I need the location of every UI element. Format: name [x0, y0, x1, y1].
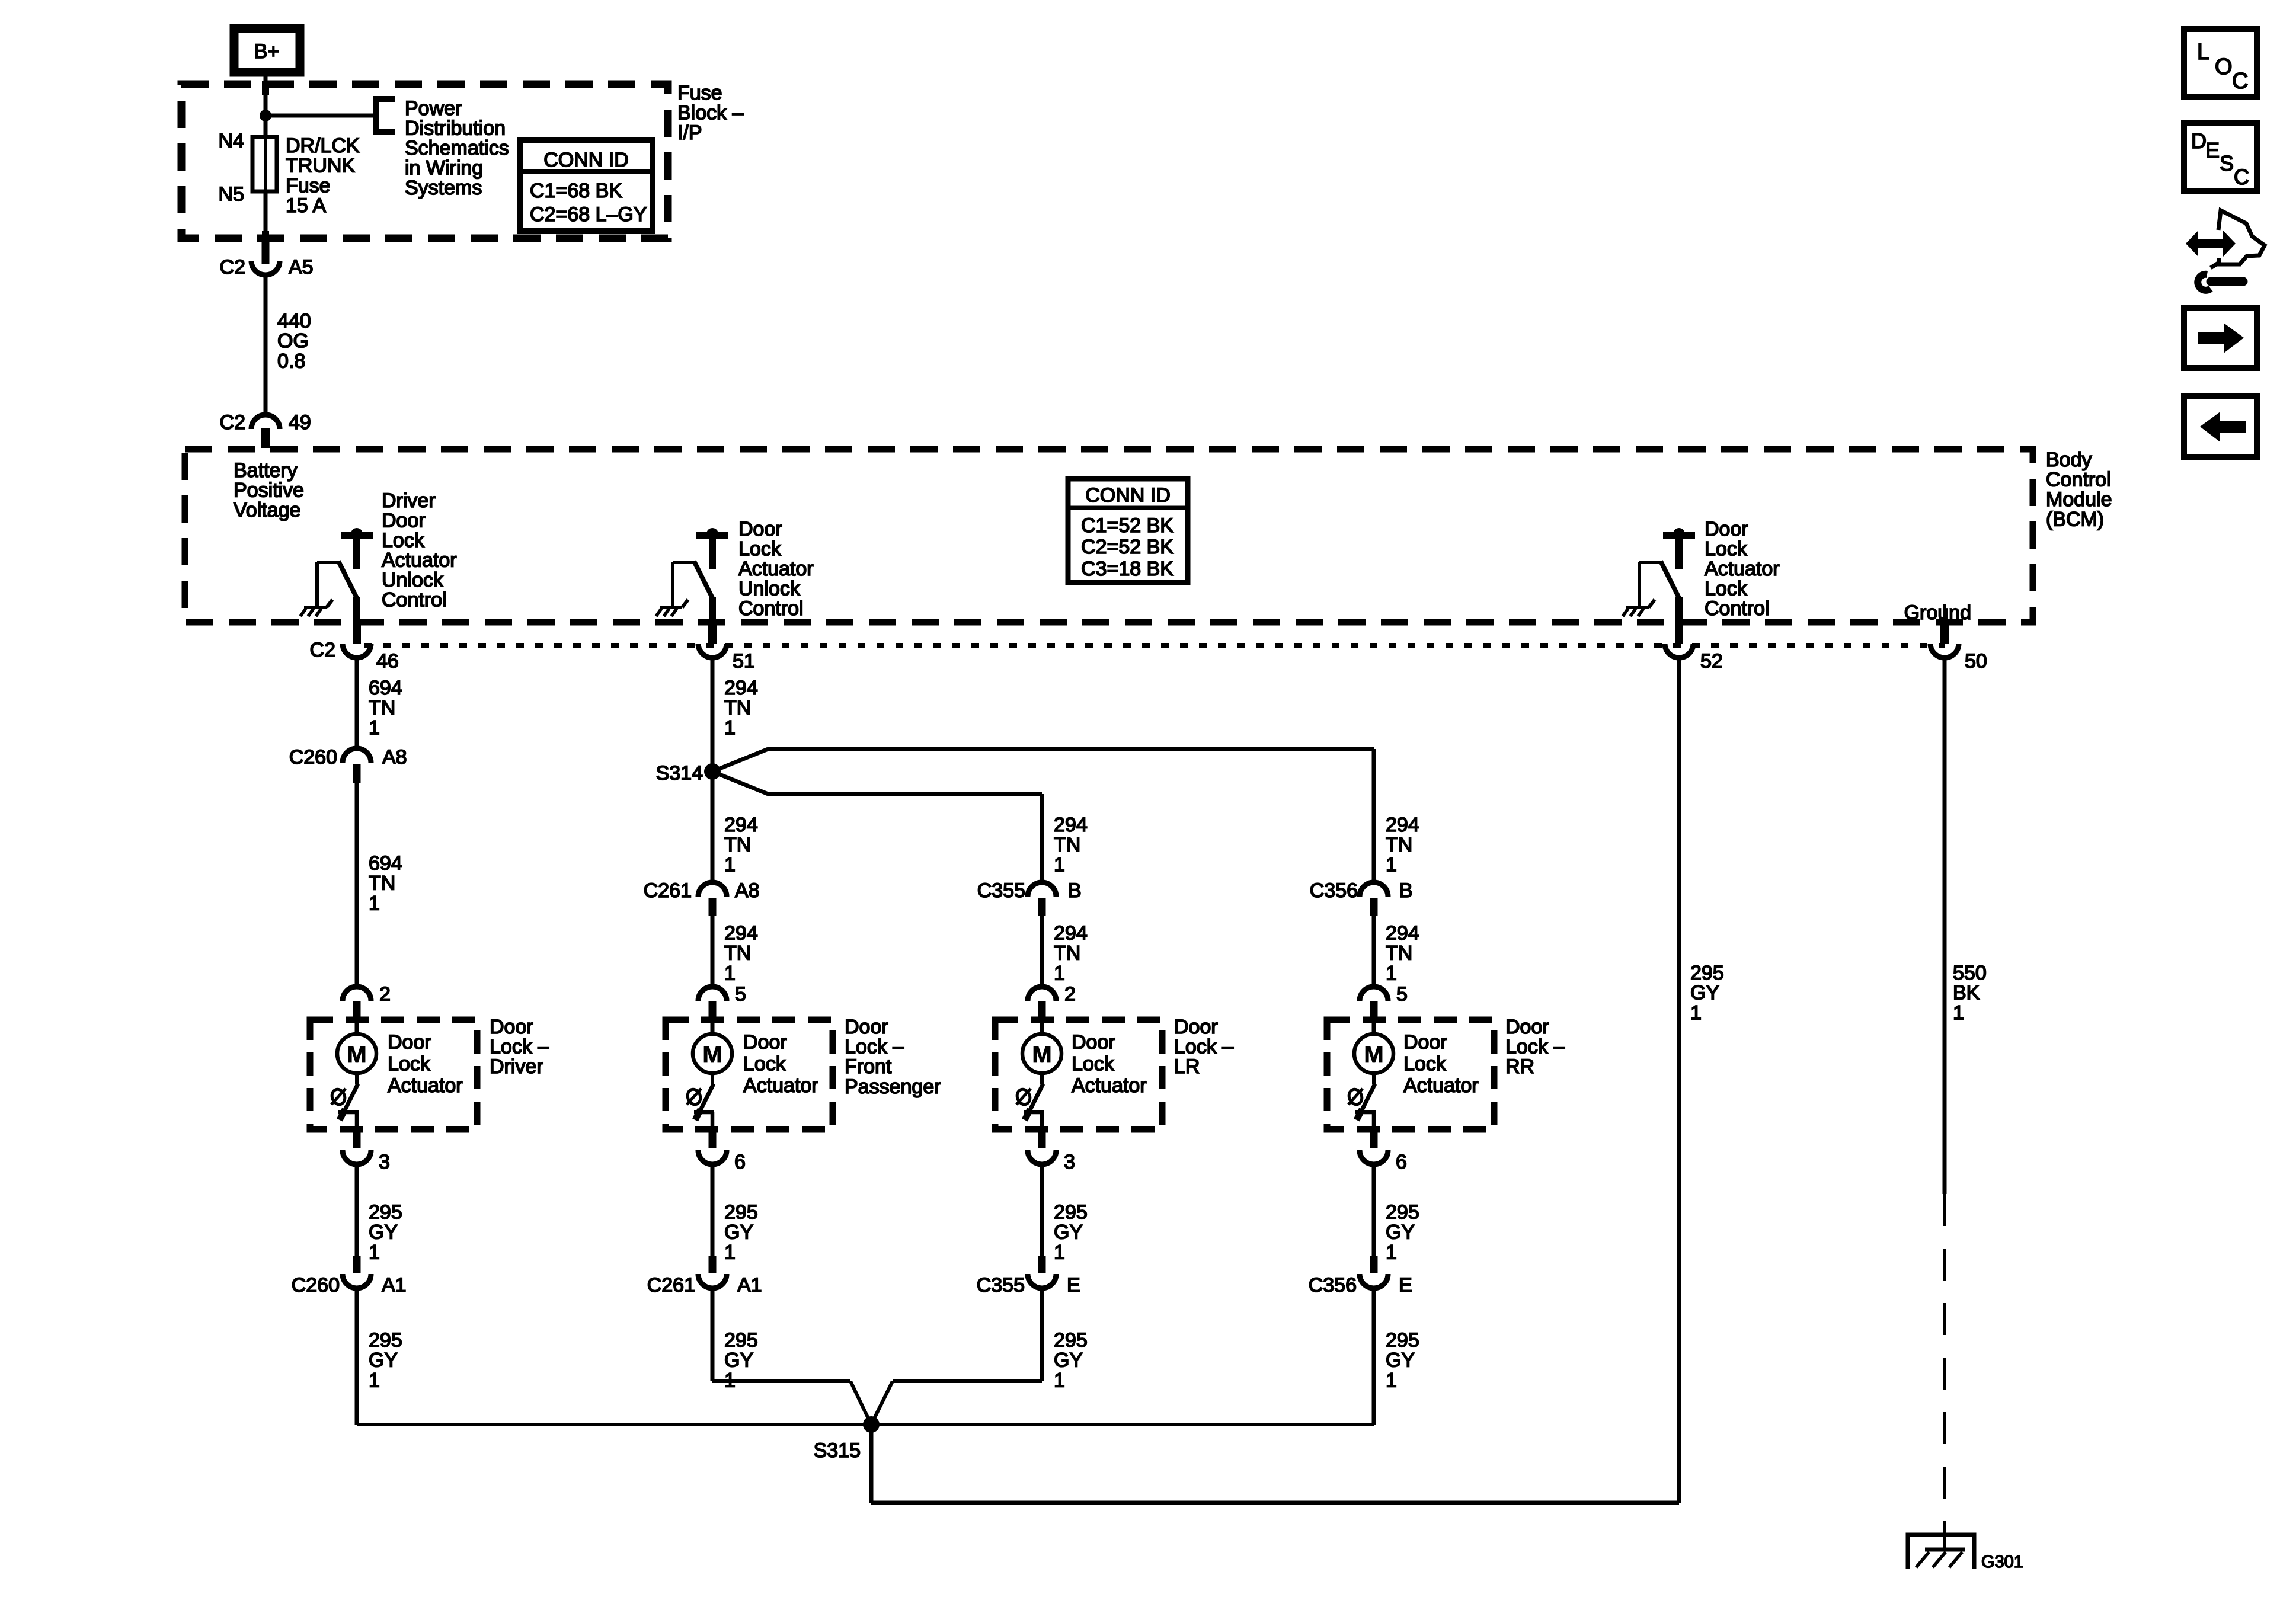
svg-text:Door: Door — [1403, 1031, 1447, 1054]
svg-text:Door: Door — [738, 518, 782, 540]
svg-text:C1=52 BK: C1=52 BK — [1081, 514, 1173, 537]
svg-text:Control: Control — [738, 597, 804, 620]
svg-text:B+: B+ — [254, 40, 280, 63]
svg-text:GY: GY — [1386, 1221, 1415, 1244]
svg-text:TN: TN — [1386, 942, 1412, 965]
svg-text:Schematics: Schematics — [405, 137, 509, 159]
svg-text:GY: GY — [369, 1349, 398, 1372]
svg-text:CONN ID: CONN ID — [543, 149, 629, 171]
svg-text:B: B — [1068, 879, 1082, 902]
svg-text:Actuator: Actuator — [738, 558, 814, 580]
svg-text:295: 295 — [1054, 1329, 1088, 1352]
svg-text:2: 2 — [1064, 983, 1076, 1006]
svg-text:294: 294 — [724, 814, 758, 836]
svg-text:C: C — [2234, 165, 2249, 189]
svg-text:1: 1 — [724, 716, 736, 739]
svg-text:1: 1 — [724, 962, 736, 984]
svg-text:M: M — [1032, 1042, 1051, 1068]
svg-text:295: 295 — [1386, 1329, 1419, 1352]
svg-text:1: 1 — [1386, 1241, 1397, 1263]
svg-text:E: E — [2205, 138, 2220, 162]
svg-text:1: 1 — [1690, 1001, 1702, 1024]
svg-text:Lock: Lock — [1705, 538, 1748, 561]
svg-text:52: 52 — [1700, 650, 1723, 673]
svg-text:694: 694 — [369, 677, 402, 699]
svg-text:Voltage: Voltage — [234, 499, 300, 521]
svg-text:15 A: 15 A — [286, 194, 326, 217]
svg-text:Lock: Lock — [738, 538, 782, 561]
svg-text:295: 295 — [369, 1201, 402, 1224]
svg-text:TN: TN — [369, 697, 395, 719]
svg-text:C355: C355 — [977, 879, 1025, 902]
svg-text:3: 3 — [1064, 1151, 1075, 1173]
svg-text:M: M — [1364, 1042, 1383, 1068]
svg-text:Systems: Systems — [405, 177, 482, 199]
svg-text:Ground: Ground — [1904, 601, 1971, 624]
svg-text:I/P: I/P — [677, 121, 702, 144]
svg-text:295: 295 — [1690, 962, 1724, 984]
svg-text:Driver: Driver — [490, 1055, 543, 1078]
svg-text:Control: Control — [2046, 469, 2111, 491]
svg-text:Unlock: Unlock — [382, 569, 444, 591]
svg-text:Control: Control — [382, 589, 447, 612]
svg-text:Lock –: Lock – — [845, 1036, 904, 1058]
svg-text:C261: C261 — [647, 1274, 695, 1297]
svg-text:Actuator: Actuator — [388, 1074, 463, 1097]
svg-text:694: 694 — [369, 852, 402, 875]
svg-text:294: 294 — [1054, 922, 1088, 945]
svg-text:TN: TN — [369, 872, 395, 895]
svg-text:C260: C260 — [292, 1274, 340, 1297]
svg-text:1: 1 — [369, 716, 380, 739]
svg-text:51: 51 — [733, 650, 755, 673]
svg-text:Lock: Lock — [743, 1052, 786, 1075]
svg-text:Lock: Lock — [1403, 1052, 1447, 1075]
svg-text:Door: Door — [382, 510, 426, 532]
svg-text:0.8: 0.8 — [277, 350, 305, 372]
svg-text:A1: A1 — [737, 1274, 762, 1297]
svg-text:C2: C2 — [220, 256, 245, 279]
svg-text:E: E — [1399, 1274, 1412, 1297]
svg-text:N5: N5 — [219, 183, 244, 206]
svg-text:C260: C260 — [289, 746, 337, 769]
svg-text:M: M — [702, 1042, 722, 1068]
svg-text:1: 1 — [1054, 1241, 1065, 1263]
svg-text:A1: A1 — [382, 1274, 407, 1297]
svg-text:TN: TN — [724, 697, 751, 719]
svg-text:GY: GY — [1054, 1349, 1083, 1372]
svg-text:1: 1 — [369, 1369, 380, 1391]
svg-text:295: 295 — [1386, 1201, 1419, 1224]
svg-text:Power: Power — [405, 97, 462, 120]
svg-text:1: 1 — [1386, 853, 1397, 876]
svg-text:1: 1 — [1054, 962, 1065, 984]
svg-text:Battery: Battery — [234, 459, 298, 482]
svg-text:46: 46 — [376, 650, 399, 673]
svg-text:GY: GY — [1054, 1221, 1083, 1244]
svg-text:C355: C355 — [977, 1274, 1025, 1297]
svg-text:5: 5 — [735, 983, 746, 1006]
svg-text:1: 1 — [1386, 1369, 1397, 1391]
svg-text:Block –: Block – — [677, 102, 744, 124]
svg-text:294: 294 — [724, 922, 758, 945]
svg-text:2: 2 — [379, 983, 391, 1006]
svg-text:5: 5 — [1396, 983, 1408, 1006]
svg-text:294: 294 — [1386, 922, 1419, 945]
svg-text:S314: S314 — [656, 762, 703, 785]
svg-text:Lock: Lock — [1072, 1052, 1115, 1075]
svg-text:Front: Front — [845, 1055, 892, 1078]
svg-text:D: D — [2191, 129, 2207, 153]
svg-text:1: 1 — [1054, 1369, 1065, 1391]
svg-text:1: 1 — [1054, 853, 1065, 876]
svg-text:Door: Door — [743, 1031, 787, 1054]
svg-text:1: 1 — [724, 853, 736, 876]
svg-text:B: B — [1399, 879, 1413, 902]
svg-text:Actuator: Actuator — [1403, 1074, 1479, 1097]
svg-text:C2: C2 — [220, 411, 245, 434]
svg-text:Door: Door — [1174, 1016, 1218, 1038]
svg-text:Fuse: Fuse — [286, 174, 331, 197]
svg-text:Control: Control — [1705, 597, 1770, 620]
svg-text:A8: A8 — [382, 746, 407, 769]
svg-text:BK: BK — [1953, 982, 1980, 1004]
svg-text:1: 1 — [1953, 1001, 1964, 1024]
svg-text:295: 295 — [369, 1329, 402, 1352]
svg-text:Passenger: Passenger — [845, 1076, 941, 1098]
svg-text:O: O — [2215, 55, 2233, 79]
svg-text:Door: Door — [490, 1016, 533, 1038]
svg-text:C2=52 BK: C2=52 BK — [1081, 536, 1173, 558]
svg-text:294: 294 — [724, 677, 758, 699]
svg-text:C2=68 L–GY: C2=68 L–GY — [530, 203, 647, 226]
svg-text:RR: RR — [1505, 1055, 1534, 1078]
svg-text:M: M — [347, 1042, 366, 1068]
svg-text:OG: OG — [277, 330, 309, 353]
svg-text:295: 295 — [724, 1329, 758, 1352]
svg-text:Distribution: Distribution — [405, 117, 506, 140]
svg-text:N4: N4 — [219, 130, 244, 152]
svg-text:Module: Module — [2046, 488, 2112, 511]
svg-text:S315: S315 — [814, 1439, 861, 1462]
svg-text:C: C — [2232, 69, 2248, 94]
svg-text:C3=18 BK: C3=18 BK — [1081, 558, 1173, 580]
svg-text:49: 49 — [289, 411, 311, 434]
svg-text:TN: TN — [1054, 834, 1080, 856]
svg-text:Lock: Lock — [388, 1052, 431, 1075]
svg-text:294: 294 — [1386, 814, 1419, 836]
svg-text:6: 6 — [734, 1151, 746, 1173]
svg-text:Fuse: Fuse — [677, 82, 722, 104]
svg-text:Door: Door — [1505, 1016, 1549, 1038]
svg-text:Door: Door — [388, 1031, 431, 1054]
svg-text:Actuator: Actuator — [743, 1074, 818, 1097]
svg-text:1: 1 — [369, 892, 380, 914]
svg-text:A5: A5 — [289, 256, 314, 279]
svg-text:6: 6 — [1396, 1151, 1407, 1173]
svg-text:TRUNK: TRUNK — [286, 155, 355, 177]
svg-text:Body: Body — [2046, 449, 2092, 471]
svg-text:C1=68 BK: C1=68 BK — [530, 180, 622, 202]
svg-text:CONN ID: CONN ID — [1085, 484, 1171, 507]
svg-text:in Wiring: in Wiring — [405, 157, 483, 180]
svg-text:440: 440 — [277, 310, 311, 332]
svg-text:Lock –: Lock – — [490, 1036, 549, 1058]
svg-text:550: 550 — [1953, 962, 1987, 984]
svg-text:Door: Door — [845, 1016, 888, 1038]
svg-text:GY: GY — [724, 1221, 753, 1244]
svg-text:A8: A8 — [735, 879, 760, 902]
svg-text:(BCM): (BCM) — [2046, 508, 2104, 531]
svg-text:Lock –: Lock – — [1505, 1036, 1565, 1058]
svg-text:GY: GY — [1690, 982, 1719, 1004]
svg-text:DR/LCK: DR/LCK — [286, 135, 360, 157]
svg-text:Door: Door — [1705, 518, 1748, 540]
svg-text:C2: C2 — [310, 639, 335, 661]
svg-text:C261: C261 — [644, 879, 692, 902]
svg-text:1: 1 — [1386, 962, 1397, 984]
svg-text:294: 294 — [1054, 814, 1088, 836]
svg-text:TN: TN — [1386, 834, 1412, 856]
svg-text:C356: C356 — [1310, 879, 1358, 902]
svg-text:TN: TN — [724, 942, 751, 965]
svg-text:1: 1 — [724, 1241, 736, 1263]
svg-text:1: 1 — [369, 1241, 380, 1263]
svg-text:G301: G301 — [1981, 1553, 2023, 1571]
svg-text:S: S — [2220, 151, 2234, 175]
svg-text:C356: C356 — [1309, 1274, 1357, 1297]
svg-text:GY: GY — [724, 1349, 753, 1372]
svg-text:L: L — [2197, 40, 2209, 65]
svg-text:Actuator: Actuator — [382, 549, 457, 572]
svg-text:Positive: Positive — [234, 479, 304, 502]
svg-text:Lock –: Lock – — [1174, 1036, 1233, 1058]
svg-text:TN: TN — [724, 834, 751, 856]
svg-text:GY: GY — [369, 1221, 398, 1244]
svg-text:LR: LR — [1174, 1055, 1200, 1078]
svg-text:Driver: Driver — [382, 489, 436, 512]
svg-text:Lock: Lock — [1705, 578, 1748, 600]
svg-text:Actuator: Actuator — [1072, 1074, 1147, 1097]
svg-text:Lock: Lock — [382, 529, 425, 552]
svg-text:295: 295 — [724, 1201, 758, 1224]
svg-text:Unlock: Unlock — [738, 578, 801, 600]
svg-text:E: E — [1067, 1274, 1080, 1297]
svg-text:TN: TN — [1054, 942, 1080, 965]
svg-text:3: 3 — [379, 1151, 390, 1173]
svg-text:GY: GY — [1386, 1349, 1415, 1372]
svg-text:Door: Door — [1072, 1031, 1115, 1054]
svg-text:295: 295 — [1054, 1201, 1088, 1224]
svg-text:50: 50 — [1965, 650, 1987, 673]
svg-text:Actuator: Actuator — [1705, 558, 1780, 580]
